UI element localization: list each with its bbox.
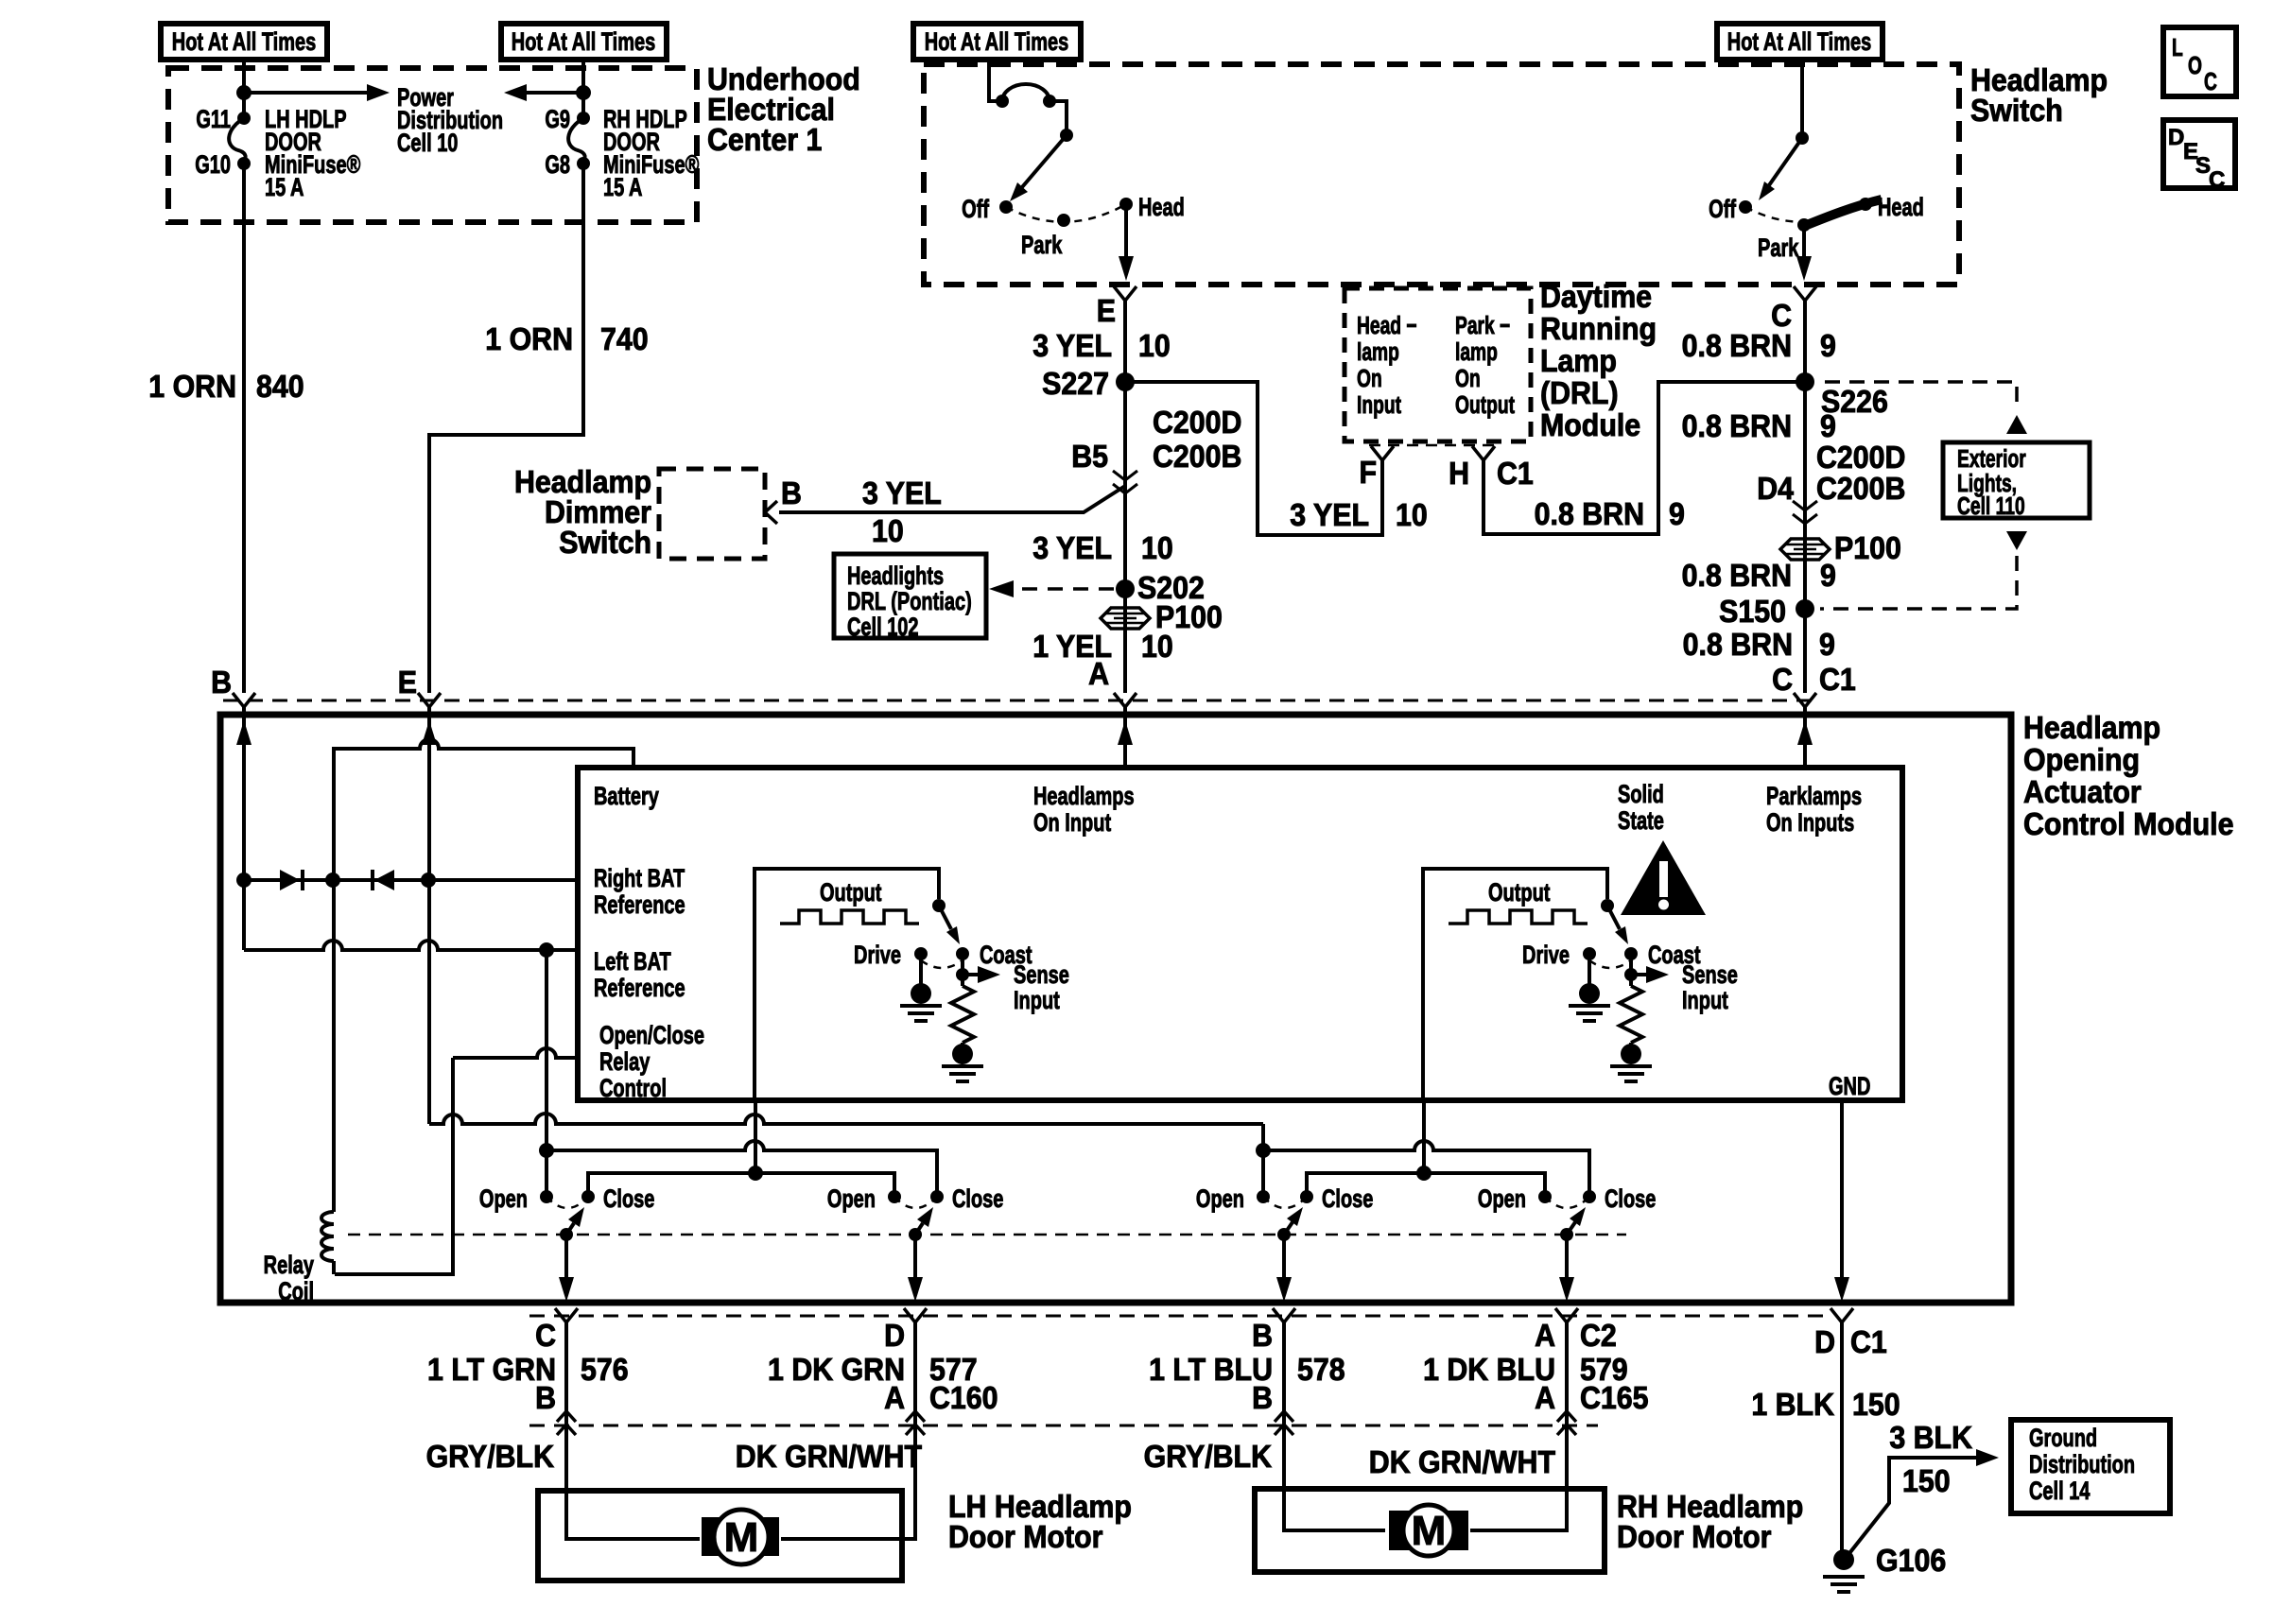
svg-text:Close: Close xyxy=(952,1184,1003,1214)
power feed label box "Hot At All Times" (headlamp sw left feed) xyxy=(913,24,1081,60)
svg-text:3 YEL: 3 YEL xyxy=(1032,530,1112,565)
contact Head (right switch) xyxy=(1859,198,1872,211)
svg-text:Battery: Battery xyxy=(594,782,660,811)
svg-text:S150: S150 xyxy=(1719,594,1786,629)
switch blade arm with arrow toward Off (right switch) xyxy=(1769,138,1802,185)
relay contact bus L3 right (Close3 and Open4) xyxy=(1307,1173,1545,1197)
connector at module pin C xyxy=(1794,693,1816,707)
heavy switch wiper blade in Park-Head position xyxy=(1802,199,1882,227)
splice S202 xyxy=(1116,579,1135,598)
LH Headlamp Door Motor box xyxy=(538,1491,902,1581)
svg-text:Actuator: Actuator xyxy=(2023,774,2142,809)
svg-text:Headlamp: Headlamp xyxy=(2023,710,2160,745)
junction node sense (left) xyxy=(956,968,969,981)
svg-text:G8: G8 xyxy=(545,150,570,180)
output driver cell outline (left) xyxy=(755,869,939,1100)
svg-text:S227: S227 xyxy=(1042,366,1109,401)
relay contact bus L3 left (Close1 and Open2) xyxy=(588,1173,894,1197)
svg-text:Switch: Switch xyxy=(559,525,651,560)
svg-text:Head −: Head − xyxy=(1357,311,1417,339)
wire Open/Close Relay Control pin line (hop over left-bat drop) xyxy=(453,1048,578,1058)
svg-text:A: A xyxy=(884,1380,905,1415)
relay coil xyxy=(321,1212,334,1261)
output wiper pivot node (right) xyxy=(1601,899,1614,912)
svg-text:C: C xyxy=(535,1318,556,1353)
svg-text:3 YEL: 3 YEL xyxy=(862,475,942,510)
svg-text:On: On xyxy=(1357,364,1382,392)
connector at module pin D xyxy=(904,1308,927,1322)
svg-text:D: D xyxy=(1814,1324,1835,1359)
wire feed into right switch mechanism xyxy=(1800,60,1804,138)
dashed travel arc Off-Park-Head (left switch) xyxy=(1006,204,1126,222)
relay contact bus L2 left (Open1 and Close2, hop at x800) xyxy=(547,1141,937,1197)
svg-text:L: L xyxy=(2172,33,2183,61)
contact Park (right switch) xyxy=(1797,218,1811,232)
svg-text:Cell 10: Cell 10 xyxy=(397,129,458,158)
svg-text:Daytime: Daytime xyxy=(1540,279,1652,314)
junction node drive output right joins bus L3 right xyxy=(1416,1166,1431,1181)
svg-text:10: 10 xyxy=(1138,328,1171,363)
svg-text:10: 10 xyxy=(1396,497,1428,532)
junction node diode center to relay coil xyxy=(325,872,340,888)
svg-text:A: A xyxy=(1088,656,1109,691)
svg-text:On: On xyxy=(1455,364,1481,392)
svg-text:Park −: Park − xyxy=(1455,311,1510,339)
wire from Park contact down to connector C with arrow xyxy=(1802,225,1806,259)
page reference box DESC xyxy=(2163,120,2235,188)
square wave output waveform (right) xyxy=(1449,910,1588,924)
svg-text:C: C xyxy=(1772,662,1793,697)
in-line connector C200 chevrons on right wire xyxy=(1793,501,1817,524)
wire Coast contact to sense node (right) xyxy=(1629,954,1633,986)
svg-text:Off: Off xyxy=(1709,195,1736,224)
svg-text:M: M xyxy=(1412,1508,1447,1554)
svg-text:1 ORN: 1 ORN xyxy=(148,369,236,404)
junction node sense (right) xyxy=(1624,968,1638,981)
dashed connector face line C2 of actuator module xyxy=(529,1315,1830,1318)
svg-text:9: 9 xyxy=(1669,496,1685,531)
svg-text:Running: Running xyxy=(1540,311,1657,346)
svg-text:Output: Output xyxy=(1488,878,1551,907)
svg-text:DK GRN/WHT: DK GRN/WHT xyxy=(736,1439,923,1474)
svg-text:Lamp: Lamp xyxy=(1540,343,1617,378)
in-line connector C200 chevrons on center wire xyxy=(1113,471,1137,493)
connector at module pin D (C1 ground) xyxy=(1831,1308,1853,1322)
connector at module pin B (motor B) xyxy=(1273,1308,1295,1322)
ground at Drive contact (right) xyxy=(1579,983,1600,1004)
reference box Exterior Lights Cell 110 xyxy=(1943,442,2090,518)
Headlamp Opening Actuator Control Module box xyxy=(220,715,2011,1303)
dashed travel arc Drive-Coast (left) xyxy=(921,960,963,968)
switch pivot node xyxy=(1060,129,1073,142)
svg-text:Input: Input xyxy=(1682,986,1728,1015)
arrow up into Exterior Lights reference xyxy=(2006,415,2027,434)
svg-text:Hot At All Times: Hot At All Times xyxy=(925,27,1068,57)
svg-text:Relay: Relay xyxy=(599,1047,651,1077)
wire L1 drop to Open contact of relay 3 xyxy=(1261,1124,1265,1197)
node junction at RH fuse feed xyxy=(576,85,591,100)
junction node on wire E at diode line xyxy=(421,872,436,888)
current arrow into module at A xyxy=(1118,720,1133,745)
svg-text:D4: D4 xyxy=(1757,471,1794,506)
dashed connector face line C160/C165 xyxy=(529,1425,1598,1427)
wire resistor to ground (right) xyxy=(1629,1043,1633,1047)
solid state inner circuit box xyxy=(578,768,1902,1100)
switch pivot node (right switch) xyxy=(1796,131,1809,145)
svg-text:Off: Off xyxy=(962,195,989,224)
wire GND from solid state box to module pin D xyxy=(1840,1100,1844,1280)
splice S227 xyxy=(1116,372,1135,391)
contact Drive (left) xyxy=(914,947,928,960)
svg-text:9: 9 xyxy=(1820,558,1836,593)
dashed reference link Exterior Lights cell to S150 xyxy=(1820,556,2017,609)
contact Off (right switch) xyxy=(1739,200,1752,214)
svg-text:lamp: lamp xyxy=(1455,337,1498,366)
svg-text:B: B xyxy=(781,475,802,510)
connector at module pin A xyxy=(1114,693,1136,707)
svg-text:Center 1: Center 1 xyxy=(707,122,822,157)
wire stub A into module xyxy=(1123,707,1127,768)
svg-text:G11: G11 xyxy=(196,105,231,134)
reference box Headlights DRL (Pontiac) Cell 102 xyxy=(834,554,986,638)
wire pin A to RH motor xyxy=(1470,1322,1567,1530)
wire hump jumper in switch feed xyxy=(1002,84,1050,101)
svg-text:B: B xyxy=(211,665,232,700)
ground below sense resistor (left) xyxy=(952,1044,973,1064)
svg-text:lamp: lamp xyxy=(1357,337,1399,366)
svg-text:Distribution: Distribution xyxy=(2029,1450,2135,1479)
motor M symbol (RH) xyxy=(1403,1505,1454,1556)
connector at module pin C xyxy=(555,1308,578,1322)
relay coil riser wire from diode junction xyxy=(332,880,336,1212)
wire resistor to ground (left) xyxy=(961,1043,964,1047)
svg-text:Hot At All Times: Hot At All Times xyxy=(172,27,316,57)
Headlamp Dimmer Switch dashed box xyxy=(659,469,765,559)
wire pin C to LH motor xyxy=(566,1322,700,1539)
svg-text:Control: Control xyxy=(599,1074,667,1103)
svg-text:GRY/BLK: GRY/BLK xyxy=(426,1439,555,1474)
wire pin D to LH motor xyxy=(781,1322,915,1539)
arrow down from Exterior Lights reference xyxy=(2006,531,2027,550)
wire 1 BLK 150 to ground G106 xyxy=(1840,1322,1844,1550)
resistor sense shunt (right) xyxy=(1620,986,1642,1043)
svg-text:E: E xyxy=(1097,293,1116,328)
contact node xyxy=(996,95,1009,108)
svg-text:0.8 BRN: 0.8 BRN xyxy=(1682,558,1792,593)
connector at module pin E xyxy=(418,693,441,707)
svg-text:Drive: Drive xyxy=(854,941,901,970)
ground G106 xyxy=(1833,1549,1854,1570)
svg-text:B5: B5 xyxy=(1071,439,1108,474)
junction node Left BAT Reference to relay contact bus xyxy=(539,942,554,958)
svg-text:10: 10 xyxy=(1141,629,1173,664)
dashed reference link S226 to Exterior Lights cell xyxy=(1825,382,2017,409)
svg-text:3 BLK: 3 BLK xyxy=(1889,1420,1972,1455)
contact Coast (left) xyxy=(956,947,969,960)
dashed travel arc Off-Park-Head (right switch) xyxy=(1745,204,1865,222)
svg-text:DK GRN/WHT: DK GRN/WHT xyxy=(1369,1444,1556,1479)
solid state warning triangle symbol xyxy=(1621,840,1706,915)
svg-text:0.8 BRN: 0.8 BRN xyxy=(1682,328,1792,363)
svg-text:Close: Close xyxy=(1605,1184,1656,1214)
svg-text:0.8 BRN: 0.8 BRN xyxy=(1535,496,1644,531)
arrow Sense Input (right) xyxy=(1631,973,1646,976)
junction node drive output left joins bus L3 xyxy=(748,1166,763,1181)
svg-text:GND: GND xyxy=(1829,1072,1870,1101)
svg-text:Control Module: Control Module xyxy=(2023,806,2233,841)
wire feed into left switch mechanism xyxy=(989,60,1002,101)
wire to switch pivot xyxy=(1050,101,1067,135)
svg-text:Open: Open xyxy=(1478,1184,1526,1214)
junction node L1 joins bus L2 right xyxy=(1256,1143,1271,1158)
junction node left-bat drop joins bus L2 xyxy=(539,1143,554,1158)
arrow into Ground Distribution reference xyxy=(1976,1449,1999,1466)
svg-text:10: 10 xyxy=(872,513,904,548)
current arrow out of module at GND xyxy=(1834,1277,1849,1302)
contact Drive (right) xyxy=(1583,947,1596,960)
svg-text:O: O xyxy=(2188,51,2202,79)
svg-text:B: B xyxy=(1252,1318,1273,1353)
svg-text:G10: G10 xyxy=(195,150,231,180)
motor M armature block (LH) xyxy=(702,1517,779,1556)
dashed mechanical link line from relay coil to contact arms xyxy=(348,1234,1626,1236)
wire relay coil bottom xyxy=(332,1261,336,1274)
svg-text:C160: C160 xyxy=(929,1380,998,1415)
svg-text:E: E xyxy=(398,665,417,700)
svg-text:15 A: 15 A xyxy=(603,173,642,202)
svg-text:Close: Close xyxy=(1322,1184,1373,1214)
current arrow into module at C1 xyxy=(1797,720,1813,745)
svg-text:D: D xyxy=(2168,125,2184,150)
current arrow into module at E xyxy=(422,720,437,745)
contact Park (left switch) xyxy=(1057,214,1070,227)
svg-text:GRY/BLK: GRY/BLK xyxy=(1144,1439,1273,1474)
output wiper pivot node (left) xyxy=(932,899,946,912)
contact Head (left switch) xyxy=(1119,198,1133,211)
diode D1 (anode at B wire) xyxy=(280,870,300,890)
wire B corner to Left BAT Reference xyxy=(242,880,246,950)
relay contact bus L1 from wire E (hops at x479 x578 x800) xyxy=(429,1114,1263,1124)
svg-text:576: 576 xyxy=(581,1352,629,1387)
connector at module pin B xyxy=(233,693,255,707)
svg-text:Reference: Reference xyxy=(594,974,685,1003)
svg-text:C200D: C200D xyxy=(1816,440,1905,475)
reference box Ground Distribution Cell 14 xyxy=(2011,1420,2170,1513)
svg-text:Input: Input xyxy=(1357,390,1401,419)
splice S226 xyxy=(1796,372,1814,391)
svg-text:C2: C2 xyxy=(1580,1318,1617,1353)
wire from Hot At All Times to LH HDLP DOOR fuse xyxy=(242,60,246,118)
svg-text:0.8 BRN: 0.8 BRN xyxy=(1683,627,1793,662)
wire Drive contact to ground (left) xyxy=(919,954,923,984)
contact Coast (right) xyxy=(1624,947,1638,960)
wire battery feed from diode junction to Battery pin (hop over E wire) xyxy=(334,739,633,880)
in-line connector chevrons at C165 (RH green wire) xyxy=(1557,1411,1576,1435)
svg-text:Headlamps: Headlamps xyxy=(1033,782,1135,811)
svg-text:D: D xyxy=(884,1318,905,1353)
svg-text:Door Motor: Door Motor xyxy=(1617,1519,1771,1554)
grommet P100 on center wire xyxy=(1101,608,1150,629)
svg-text:1 BLK: 1 BLK xyxy=(1751,1387,1834,1422)
current arrow into module at B xyxy=(236,720,252,745)
svg-text:A: A xyxy=(1535,1318,1555,1353)
relay contact bus L2 right (Close4, hop at x1506) xyxy=(1263,1141,1589,1197)
fuse RH HDLP DOOR MiniFuse 15 A xyxy=(577,112,590,125)
relay contacts 4 (RH open winding, pin A) xyxy=(1538,1190,1552,1203)
svg-text:G9: G9 xyxy=(545,105,570,134)
in-line connector chevrons at C160 (LH gray wire) xyxy=(557,1411,576,1435)
svg-text:9: 9 xyxy=(1820,408,1836,443)
svg-text:State: State xyxy=(1618,806,1664,836)
svg-text:G106: G106 xyxy=(1876,1543,1946,1578)
svg-text:B: B xyxy=(1252,1380,1273,1415)
dashed connector face of DRL module xyxy=(1369,444,1496,447)
power feed label box "Hot At All Times" (left) xyxy=(161,24,327,60)
wire from DRL module pin H to splice S226 xyxy=(1484,382,1805,534)
output wiper blade with arrow toward Coast (left) xyxy=(939,906,951,929)
switch blade arm with arrow toward Off xyxy=(1022,135,1067,187)
connector C at headlamp switch park output xyxy=(1794,286,1816,301)
svg-text:H: H xyxy=(1449,456,1469,491)
svg-text:Open/Close: Open/Close xyxy=(599,1021,704,1050)
dashed arrow from S202 to Headlights DRL cell reference xyxy=(1014,587,1114,591)
svg-text:10: 10 xyxy=(1141,530,1173,565)
svg-text:Solid: Solid xyxy=(1618,780,1664,809)
svg-text:3 YEL: 3 YEL xyxy=(1290,497,1369,532)
svg-text:Output: Output xyxy=(820,878,882,907)
in-line connector chevrons at C165 (RH gray wire) xyxy=(1275,1411,1293,1435)
svg-text:On Input: On Input xyxy=(1033,808,1111,838)
connector pin H of DRL module xyxy=(1472,446,1495,460)
wire B inside module down to diode line xyxy=(242,707,246,880)
svg-text:P100: P100 xyxy=(1834,530,1901,565)
wire drive output left from solid state box to bus L3 xyxy=(754,1100,757,1173)
svg-text:740: 740 xyxy=(600,321,649,356)
svg-text:C200B: C200B xyxy=(1153,439,1241,474)
svg-text:Open: Open xyxy=(1196,1184,1244,1214)
svg-text:1 ORN: 1 ORN xyxy=(485,321,573,356)
svg-text:Open: Open xyxy=(479,1184,528,1214)
connector pin B of dimmer switch xyxy=(765,501,777,524)
in-line connector chevrons at C160 (LH green wire) xyxy=(906,1411,925,1435)
svg-text:Parklamps: Parklamps xyxy=(1766,782,1862,811)
wire Right BAT Reference diode line xyxy=(244,878,578,882)
node junction at LH fuse feed xyxy=(236,85,252,100)
wire drive output right from solid state box to bus L3 right xyxy=(1422,1100,1426,1173)
dashed connector face line C1 of actuator module xyxy=(223,700,1813,702)
grommet P100 on right wire xyxy=(1780,539,1830,560)
svg-text:Park: Park xyxy=(1021,231,1063,260)
relay contacts 3 (RH close winding, pin B) xyxy=(1257,1190,1270,1203)
svg-text:Ground: Ground xyxy=(2029,1424,2097,1453)
wire from Hot At All Times to RH HDLP DOOR fuse xyxy=(581,60,585,118)
wire from S227 to DRL module pin F xyxy=(1125,382,1382,535)
svg-text:Head: Head xyxy=(1878,193,1924,222)
wire left-bat drop to Open contact of relay 1 (hop over control line drawn on that line) xyxy=(545,950,548,1197)
svg-text:Open: Open xyxy=(827,1184,876,1214)
arrow to Power Distribution Cell 10 (left-pointing) xyxy=(527,91,583,95)
svg-text:Park: Park xyxy=(1758,233,1799,263)
svg-text:3 YEL: 3 YEL xyxy=(1032,328,1112,363)
power feed label box "Hot At All Times" (headlamp sw right feed) xyxy=(1717,24,1883,60)
wire pin B to RH motor xyxy=(1284,1322,1385,1530)
wire 3 BLK 150 branch to Ground Distribution xyxy=(1847,1458,1978,1557)
square wave output waveform (left) xyxy=(780,910,919,924)
svg-text:Input: Input xyxy=(1014,986,1060,1015)
svg-text:150: 150 xyxy=(1902,1463,1951,1498)
svg-text:Door Motor: Door Motor xyxy=(948,1519,1102,1554)
svg-text:On Inputs: On Inputs xyxy=(1766,808,1854,838)
output wiper blade with arrow toward Coast (right) xyxy=(1607,906,1620,929)
svg-text:15 A: 15 A xyxy=(265,173,304,202)
ground below sense resistor (right) xyxy=(1621,1044,1641,1064)
svg-text:Cell 102: Cell 102 xyxy=(847,613,919,642)
wire 3 YEL 10 center vertical xyxy=(1123,301,1127,693)
svg-text:578: 578 xyxy=(1297,1352,1345,1387)
svg-text:840: 840 xyxy=(256,369,304,404)
contact node xyxy=(1043,95,1056,108)
connector at module pin A (motor A) xyxy=(1555,1308,1578,1322)
splice S150 xyxy=(1796,599,1814,618)
connector pin F of DRL module xyxy=(1371,446,1394,460)
svg-text:Drive: Drive xyxy=(1522,941,1570,970)
connector E at headlamp switch output xyxy=(1114,286,1136,301)
motor M symbol (LH) xyxy=(714,1510,769,1564)
svg-text:C1: C1 xyxy=(1850,1324,1887,1359)
svg-text:C200B: C200B xyxy=(1816,471,1905,506)
wire Coast contact to sense node (left) xyxy=(961,954,964,986)
wire Drive contact to ground (right) xyxy=(1588,954,1591,984)
wire 1 ORN 840 from fuse G10 down to module pin B xyxy=(242,164,246,693)
svg-text:0.8 BRN: 0.8 BRN xyxy=(1682,408,1792,443)
wire Left BAT Reference line (hops over coil riser and E wire) xyxy=(244,941,578,950)
arrow Sense Input (left) xyxy=(963,973,978,976)
svg-text:Switch: Switch xyxy=(1970,93,2063,128)
fuse LH HDLP DOOR MiniFuse 15 A xyxy=(237,112,251,125)
svg-text:Module: Module xyxy=(1540,407,1640,442)
svg-text:9: 9 xyxy=(1819,627,1835,662)
svg-text:9: 9 xyxy=(1820,328,1836,363)
svg-text:C165: C165 xyxy=(1580,1380,1649,1415)
svg-text:Reference: Reference xyxy=(594,890,685,920)
svg-text:F: F xyxy=(1359,455,1377,490)
wire stub C1 into module xyxy=(1803,707,1807,768)
svg-text:C200D: C200D xyxy=(1153,405,1241,440)
wire 1 ORN 740 from fuse G8 down and left to module pin E xyxy=(429,164,583,693)
page reference box LOC xyxy=(2163,27,2236,96)
svg-text:C1: C1 xyxy=(1819,662,1856,697)
wire 0.8 BRN 9 right vertical xyxy=(1803,301,1807,693)
svg-text:C: C xyxy=(2204,67,2217,95)
svg-text:Close: Close xyxy=(603,1184,654,1214)
dashed travel arc Drive-Coast (right) xyxy=(1589,960,1631,968)
svg-text:M: M xyxy=(724,1514,759,1561)
junction node on wire B at diode line xyxy=(236,872,252,888)
svg-text:Cell 14: Cell 14 xyxy=(2029,1477,2091,1506)
svg-text:150: 150 xyxy=(1852,1387,1900,1422)
Daytime Running Lamp DRL Module dashed box xyxy=(1345,288,1531,441)
svg-text:C1: C1 xyxy=(1497,456,1534,491)
diode D2 (anode at E wire) xyxy=(371,870,374,890)
wire E inside module down to relay contact bus xyxy=(427,707,431,1124)
svg-text:Right BAT: Right BAT xyxy=(594,864,685,893)
svg-text:Hot At All Times: Hot At All Times xyxy=(512,27,655,57)
svg-text:Coil: Coil xyxy=(278,1277,314,1306)
svg-text:Left BAT: Left BAT xyxy=(594,947,671,976)
svg-text:Relay: Relay xyxy=(264,1251,315,1280)
output driver cell outline (right) xyxy=(1423,869,1607,1100)
wire 3 YEL 10 from dimmer switch pin B joining center wire xyxy=(779,486,1125,512)
